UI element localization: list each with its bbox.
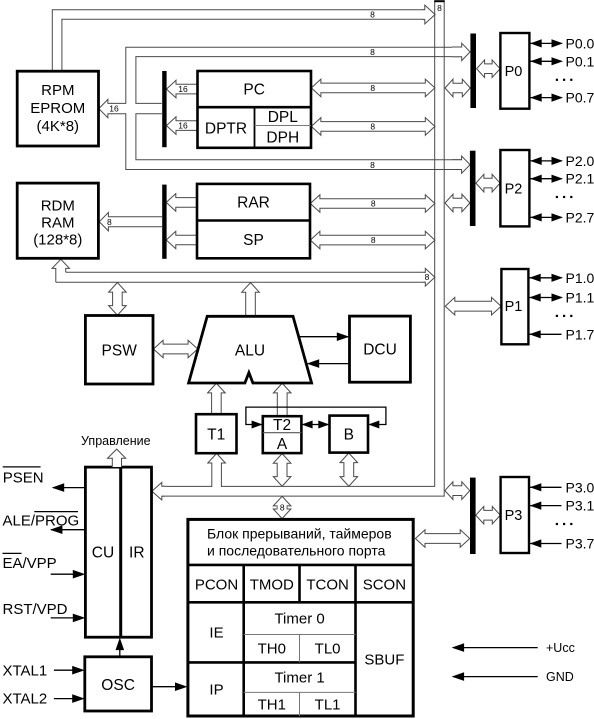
- arrowhead T2-B right: [318, 421, 329, 429]
- svg-text:RAR: RAR: [237, 194, 270, 211]
- svg-text:P2.1: P2.1: [566, 171, 594, 187]
- svg-text:DPTR: DPTR: [205, 120, 247, 137]
- svg-text:RDM: RDM: [41, 198, 75, 215]
- SBUF column divider: [354, 565, 357, 716]
- pin PSEN overline: [3, 466, 41, 468]
- svg-text:P1.7: P1.7: [566, 326, 594, 342]
- svg-text:DPH: DPH: [266, 129, 299, 146]
- DCU box: [350, 316, 411, 382]
- wire EA/VPP: [51, 573, 84, 575]
- svg-text:P0: P0: [505, 64, 523, 80]
- arrow RAR to RAM bar: [166, 194, 196, 212]
- svg-text:RAM: RAM: [41, 214, 74, 231]
- svg-text:SBUF: SBUF: [364, 651, 404, 668]
- PC DPTR divider: [198, 106, 312, 109]
- pin P3.0: [530, 486, 562, 488]
- svg-text:8: 8: [370, 47, 375, 57]
- svg-text:8: 8: [371, 235, 376, 245]
- CU IR divider: [119, 467, 122, 637]
- arrow bottom bus to interrupt block (8) bidirectional: [273, 496, 291, 518]
- arrowhead OSC to interrupt block: [175, 682, 188, 691]
- register PSW box: [85, 316, 153, 385]
- arrow SP to RAM bar: [166, 231, 196, 249]
- svg-text:P0.1: P0.1: [566, 53, 594, 69]
- arrow DPL/DPH to main bus (8) bidirectional: [311, 118, 435, 136]
- arrowhead T2-B left: [302, 421, 313, 429]
- address bar (RAR/SP): [162, 185, 166, 259]
- svg-text:TL1: TL1: [315, 697, 341, 714]
- wire PC loop inner bottom (address bar to left, down, right to P2 row): [136, 114, 462, 160]
- wire bus-A EPROM to main bus (outline): [52, 10, 424, 72]
- svg-text:16: 16: [178, 121, 188, 131]
- wire T2 to B: [303, 424, 329, 426]
- svg-text:P3.1: P3.1: [566, 498, 594, 514]
- arrow control up from CU: [108, 449, 126, 467]
- svg-text:+Ucc: +Ucc: [546, 641, 575, 655]
- svg-text:PC: PC: [243, 81, 265, 98]
- port P2 box: [500, 150, 529, 226]
- P0 driver bar: [470, 34, 476, 109]
- arrow bottom bus into CU-IR: [152, 482, 165, 500]
- arrow branch up into T1: [208, 453, 226, 487]
- wire internal data bus lines: [66, 271, 425, 273]
- arrow main bus to P0 bar bidirectional: [445, 79, 470, 97]
- pin EA/VPP overline: [3, 552, 22, 554]
- arrow P0 bar to P0 bidirectional: [477, 60, 501, 78]
- svg-text:SCON: SCON: [363, 577, 406, 594]
- svg-text:TCON: TCON: [306, 577, 349, 594]
- pin P1.7: [529, 333, 562, 335]
- arrow loop-B bottom into P2 driver bar: [452, 156, 470, 173]
- wire PC loop outer top (P0 row to left side down to EPROM junction): [111, 47, 462, 103]
- svg-text:CU: CU: [92, 544, 114, 561]
- arrow P3 bar to P3 bidirectional: [476, 506, 501, 524]
- arrowhead PSEN out: [52, 483, 64, 492]
- svg-text:IE: IE: [209, 625, 223, 642]
- arrow PC to address bar (16): [166, 80, 197, 98]
- register T2/A box: [263, 416, 302, 453]
- wire bus-A arrowhead into main vertical bus: [422, 5, 435, 24]
- PCON column divider: [242, 565, 245, 716]
- svg-text:OSC: OSC: [101, 677, 135, 694]
- wire PC loop outer bottom (EPROM junction down and right to P2 row): [111, 114, 462, 170]
- svg-text:B: B: [344, 426, 354, 443]
- arrowhead DCU to ALU: [307, 359, 320, 368]
- arrow ALU output up to internal bus: [242, 283, 260, 317]
- arrow SP to main bus (8) bidirectional: [310, 231, 435, 249]
- address bar (PC/DPTR): [162, 71, 166, 147]
- svg-text:GND: GND: [546, 670, 574, 684]
- svg-text:8: 8: [370, 122, 375, 132]
- wire main vertical bus right line + bottom bus bottom line: [162, 1, 445, 496]
- svg-text:16: 16: [178, 84, 188, 94]
- arrow RAR to main bus (8) bidirectional: [310, 195, 435, 213]
- wire GND: [454, 676, 538, 678]
- svg-text:P2: P2: [505, 181, 523, 197]
- svg-text:8: 8: [371, 199, 376, 209]
- svg-text:EA/VPP: EA/VPP: [3, 555, 57, 572]
- svg-text:TL0: TL0: [315, 641, 341, 658]
- arrowhead +Ucc: [452, 643, 465, 652]
- svg-text:IR: IR: [129, 544, 145, 561]
- svg-text:XTAL1: XTAL1: [3, 662, 48, 679]
- memory RPM EPROM box: [17, 71, 98, 146]
- svg-text:PSW: PSW: [102, 342, 138, 359]
- arrowhead ALE out: [50, 525, 63, 534]
- svg-text:P1: P1: [505, 299, 523, 315]
- register RAR/SP box: [197, 184, 310, 258]
- arrow internal bus right into main vertical bus: [424, 268, 435, 286]
- arrowhead GND: [452, 672, 465, 681]
- svg-text:EPROM: EPROM: [30, 100, 85, 117]
- arrow main bus to P1 bidirectional: [445, 297, 501, 315]
- arrowhead XTAL1 in: [72, 666, 85, 675]
- P3 driver bar: [470, 478, 476, 554]
- svg-text:8: 8: [280, 503, 285, 513]
- svg-text:RPM: RPM: [41, 82, 74, 99]
- arrow main bus to P2 bar bidirectional: [445, 194, 470, 212]
- wire ALE/PROG: [51, 529, 85, 531]
- register PC/DPTR box: [198, 71, 312, 148]
- memory RDM RAM box: [17, 183, 98, 258]
- pin P0.1: [530, 60, 562, 62]
- RAR SP divider: [197, 219, 310, 222]
- white backing for label 8: [278, 503, 287, 513]
- arrow internal bus up into RAM: [52, 259, 70, 282]
- svg-text:TMOD: TMOD: [250, 577, 294, 594]
- svg-text:P1.0: P1.0: [566, 270, 594, 286]
- Timer0 bottom divider: [244, 634, 356, 636]
- svg-text:ALE/PROG: ALE/PROG: [3, 512, 80, 529]
- arrow T2-A to bottom bus bidirectional: [273, 454, 291, 487]
- P3 dots: [556, 523, 558, 525]
- svg-text:P2.7: P2.7: [566, 209, 594, 225]
- svg-text:16: 16: [109, 104, 119, 114]
- svg-text:8: 8: [370, 83, 375, 93]
- svg-text:P3: P3: [505, 508, 523, 524]
- svg-text:8: 8: [437, 3, 442, 13]
- pin P3.1: [530, 505, 562, 507]
- arrow RAM address (8) from bar into RAM: [99, 213, 162, 231]
- pin P2.7: [530, 216, 562, 218]
- arrow PC to main bus (8) bidirectional: [311, 79, 435, 97]
- arrow B to bottom bus bidirectional: [340, 453, 358, 486]
- arrow PSW to internal bus bidirectional: [109, 283, 127, 316]
- wire +Ucc: [454, 647, 538, 649]
- svg-text:A: A: [277, 436, 288, 453]
- P2 driver bar: [470, 151, 476, 226]
- arrow program-address 16 into EPROM: [99, 99, 113, 117]
- main vertical bus top cap: [434, 0, 445, 2]
- svg-text:PSEN: PSEN: [3, 470, 44, 487]
- arrow T2 up into ALU: [273, 383, 291, 416]
- svg-text:T2: T2: [273, 417, 291, 434]
- svg-text:(4K*8): (4K*8): [37, 118, 80, 135]
- P2 dots: [556, 196, 558, 198]
- arrow main bus corner to P3 bar bidirectional: [445, 482, 470, 500]
- interrupt block outer box: [188, 519, 413, 716]
- TH0 TL0 divider: [299, 635, 301, 663]
- arrow loop-B into P0 driver bar: [452, 43, 470, 60]
- svg-text:DPL: DPL: [268, 109, 299, 126]
- svg-text:P0.0: P0.0: [566, 35, 594, 51]
- ALU trapezoid: [189, 316, 312, 383]
- arrowhead EA in: [73, 570, 86, 579]
- svg-text:8: 8: [370, 10, 375, 20]
- svg-text:TH1: TH1: [258, 697, 286, 714]
- svg-text:T1: T1: [207, 427, 225, 444]
- svg-text:Timer 0: Timer 0: [274, 611, 324, 628]
- wire main vertical bus left line + bottom bus top line: [222, 1, 435, 486]
- CU/IR box: [85, 467, 151, 637]
- wire loop T2 to B over top: [246, 407, 386, 424]
- arrow DPTR to address bar (16): [166, 117, 197, 135]
- pin P2.0: [530, 160, 562, 162]
- arrowhead XTAL2 in: [72, 694, 85, 703]
- arrow interrupt block to P3 bar bidirectional: [415, 530, 469, 548]
- svg-text:и последовательного порта: и последовательного порта: [207, 542, 386, 558]
- arrowhead RST in: [73, 614, 86, 623]
- svg-text:8: 8: [425, 272, 430, 282]
- register T1 box: [196, 414, 237, 453]
- port P1 box: [501, 269, 528, 344]
- pin P0.0: [530, 42, 562, 44]
- svg-text:8: 8: [370, 160, 375, 170]
- wire ALU to DCU: [300, 336, 348, 338]
- svg-text:P0.7: P0.7: [566, 90, 594, 106]
- wire DCU to ALU: [308, 363, 350, 365]
- wire PC loop inner top (P0 row to left, down, right to address bar): [136, 57, 462, 104]
- P1 dots: [556, 315, 558, 317]
- wire XTAL2: [54, 698, 83, 700]
- svg-text:(128*8): (128*8): [33, 231, 82, 248]
- svg-text:P2.0: P2.0: [566, 153, 594, 169]
- svg-text:Timer 1: Timer 1: [274, 670, 324, 687]
- header divider: [188, 564, 413, 567]
- pin ALE/PROG overline: [34, 511, 78, 513]
- wire RST/VPD: [51, 617, 84, 619]
- TMOD TCON divider: [298, 565, 301, 602]
- DPL DPH divider: [255, 125, 312, 127]
- wire PSEN: [53, 487, 85, 489]
- pin P3.7: [530, 543, 562, 545]
- port P0 box: [500, 33, 529, 109]
- svg-text:P3.7: P3.7: [566, 536, 594, 552]
- IE IP divider: [188, 661, 356, 664]
- arrow PSW to ALU bidirectional: [154, 340, 198, 358]
- arrowhead into T2 left: [252, 421, 263, 429]
- pin P2.1: [530, 178, 562, 180]
- TH1 TL1 divider: [299, 692, 301, 716]
- T2 A divider: [263, 432, 302, 434]
- OSC box: [85, 657, 152, 711]
- Timer1 bottom divider: [244, 691, 356, 693]
- DPTR DPL divider: [254, 107, 256, 148]
- wire OSC to interrupt block: [152, 686, 186, 688]
- svg-text:TH0: TH0: [258, 641, 286, 658]
- svg-text:RST/VPD: RST/VPD: [3, 601, 68, 618]
- svg-text:XTAL2: XTAL2: [3, 691, 48, 708]
- port P3 box: [501, 477, 529, 553]
- wire XTAL1: [54, 669, 83, 671]
- arrowhead ALU to DCU: [337, 332, 350, 341]
- svg-text:P3.0: P3.0: [566, 479, 594, 495]
- arrowhead into B right: [368, 421, 379, 429]
- svg-text:PCON: PCON: [195, 577, 238, 594]
- svg-text:Управление: Управление: [81, 434, 151, 448]
- pin P1.1: [529, 297, 562, 299]
- svg-text:P1.1: P1.1: [566, 290, 594, 306]
- wire OSC to CU/IR: [119, 640, 121, 657]
- arrow P2 bar to P2 bidirectional: [476, 174, 500, 192]
- PCON row bottom divider: [188, 601, 413, 604]
- pin P1.0: [529, 277, 562, 279]
- register B box: [330, 416, 369, 453]
- svg-text:DCU: DCU: [363, 341, 397, 358]
- P0 dots: [556, 79, 558, 81]
- svg-text:ALU: ALU: [235, 342, 265, 359]
- svg-text:IP: IP: [209, 682, 223, 699]
- pin P0.7: [530, 97, 562, 99]
- svg-text:8: 8: [107, 217, 112, 227]
- arrowhead OSC to CU: [116, 638, 125, 651]
- svg-text:Блок прерываний, таймеров: Блок прерываний, таймеров: [207, 525, 392, 541]
- svg-text:SP: SP: [243, 232, 264, 249]
- arrow T1 up into ALU: [208, 383, 226, 414]
